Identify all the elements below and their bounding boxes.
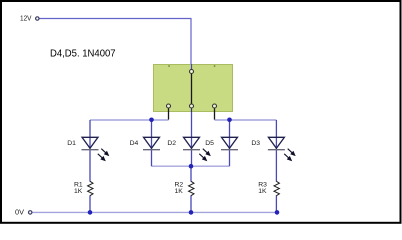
svg-text:1K: 1K [74,188,83,195]
svg-text:0V: 0V [15,209,24,216]
svg-text:D3: D3 [251,140,260,147]
svg-text:D1: D1 [67,140,76,147]
svg-text:1K: 1K [258,188,267,195]
svg-text:1K: 1K [175,188,184,195]
svg-text:D2: D2 [167,140,176,147]
svg-text:D4: D4 [130,140,139,147]
svg-text:D4,D5. 1N4007: D4,D5. 1N4007 [50,48,116,60]
svg-text:12V: 12V [20,15,32,22]
svg-text:D5: D5 [205,140,214,147]
